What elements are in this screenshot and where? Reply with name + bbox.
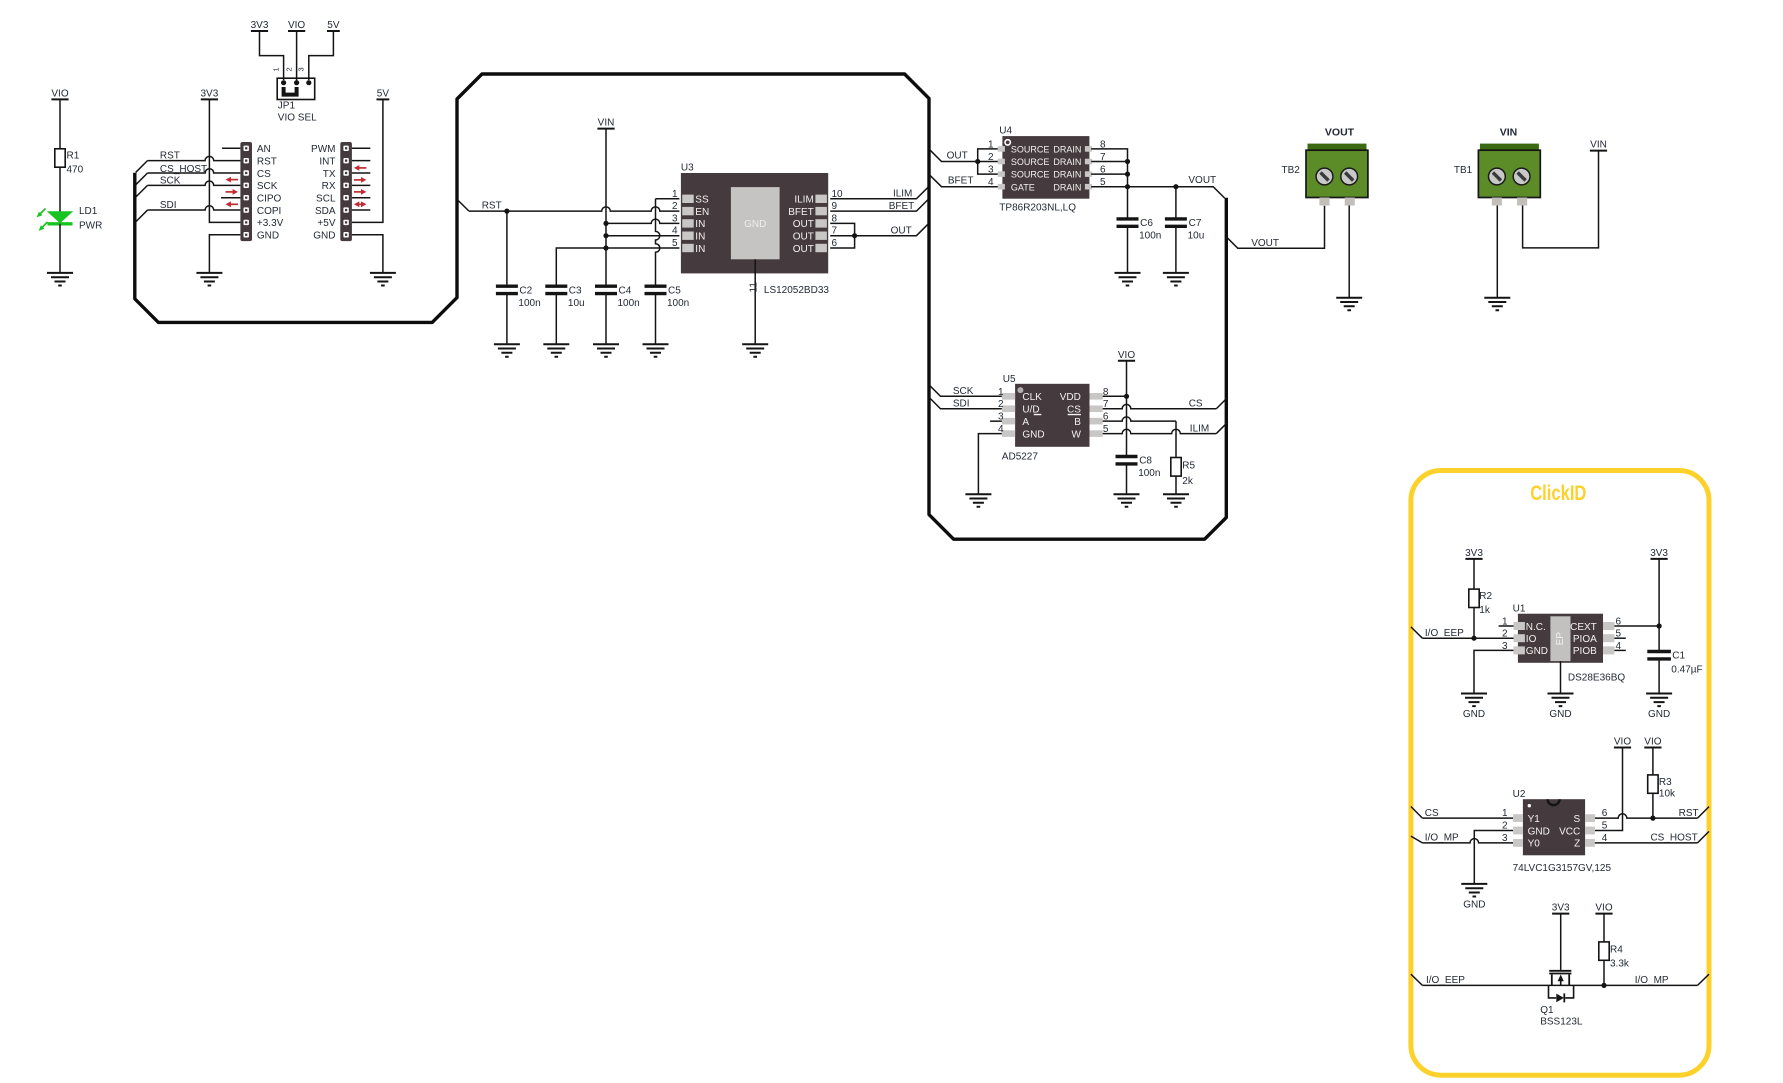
svg-text:470: 470 bbox=[67, 165, 84, 176]
svg-text:VIO: VIO bbox=[1595, 903, 1612, 914]
capacitor C8 bbox=[1116, 457, 1138, 464]
svg-text:2: 2 bbox=[285, 67, 294, 71]
svg-text:GND: GND bbox=[1528, 826, 1550, 837]
svg-text:CS: CS bbox=[257, 169, 271, 180]
resistor R5 bbox=[1171, 458, 1181, 477]
svg-text:100n: 100n bbox=[667, 298, 689, 309]
svg-text:10u: 10u bbox=[568, 298, 585, 309]
ClickID enclosure bbox=[1411, 471, 1709, 1076]
svg-text:1: 1 bbox=[988, 139, 994, 150]
IC U4 TP86R203NL,LQ bbox=[988, 136, 1106, 199]
svg-text:IN: IN bbox=[695, 244, 705, 255]
svg-text:VIO: VIO bbox=[1614, 737, 1631, 748]
svg-text:3.3k: 3.3k bbox=[1610, 959, 1630, 970]
net ILIM (U5 to bus) bbox=[1103, 429, 1217, 433]
junction bbox=[603, 233, 608, 238]
svg-text:DS28E36BQ: DS28E36BQ bbox=[1568, 673, 1625, 684]
svg-text:2: 2 bbox=[1502, 629, 1508, 640]
capacitor C4 bbox=[595, 286, 617, 293]
svg-text:2: 2 bbox=[998, 399, 1004, 410]
svg-text:S: S bbox=[1574, 814, 1581, 825]
svg-text:VIO: VIO bbox=[1118, 350, 1135, 361]
svg-text:CS: CS bbox=[1425, 808, 1439, 819]
junction bbox=[603, 245, 608, 250]
resistor R2 bbox=[1469, 589, 1479, 607]
svg-text:2k: 2k bbox=[1182, 476, 1194, 487]
wire pin6 CEXT bbox=[1614, 625, 1659, 627]
net CS (left) bbox=[1411, 807, 1423, 819]
wire 3V3 to gate bbox=[1560, 914, 1562, 970]
svg-text:4: 4 bbox=[672, 226, 678, 237]
svg-text:C8: C8 bbox=[1139, 455, 1152, 466]
IC U5 AD5227 bbox=[998, 384, 1109, 447]
svg-text:I/O_MP: I/O_MP bbox=[1425, 832, 1459, 843]
svg-text:Z: Z bbox=[1574, 839, 1580, 850]
svg-text:B: B bbox=[1074, 417, 1081, 428]
capacitor C2 bbox=[496, 286, 518, 293]
svg-text:RST: RST bbox=[257, 156, 277, 167]
svg-text:2: 2 bbox=[988, 152, 994, 163]
svg-text:74LVC1G3157GV,125: 74LVC1G3157GV,125 bbox=[1513, 863, 1612, 874]
svg-text:Y1: Y1 bbox=[1528, 814, 1541, 825]
svg-text:3V3: 3V3 bbox=[251, 20, 269, 31]
junction bbox=[1125, 184, 1130, 189]
svg-text:100n: 100n bbox=[1138, 468, 1160, 479]
IC U2 74LVC1G3157 bbox=[1502, 799, 1608, 855]
bus outline (thick) bbox=[135, 74, 1227, 539]
power label VIO (R3) bbox=[1644, 737, 1661, 748]
svg-text:C5: C5 bbox=[668, 286, 681, 297]
wire pin2 GND bbox=[1474, 831, 1513, 884]
wire bbox=[59, 224, 61, 273]
svg-text:GATE: GATE bbox=[1011, 182, 1035, 192]
net OUT (bus to U4) bbox=[930, 150, 999, 162]
svg-text:PIOB: PIOB bbox=[1573, 646, 1597, 657]
svg-text:PWR: PWR bbox=[79, 221, 102, 232]
svg-text:C7: C7 bbox=[1189, 218, 1202, 229]
wire AN stub bbox=[222, 147, 240, 149]
svg-text:C2: C2 bbox=[519, 286, 532, 297]
wire U4 pins 1-3 bracket bbox=[978, 149, 999, 174]
net SCK (bus to U5) bbox=[929, 385, 1002, 397]
net I/O_EEP (bottom) bbox=[1411, 974, 1423, 985]
svg-text:4: 4 bbox=[988, 177, 994, 188]
svg-text:OUT: OUT bbox=[793, 232, 814, 243]
ground bbox=[370, 273, 396, 286]
svg-text:GND: GND bbox=[1463, 899, 1485, 910]
svg-text:BFET: BFET bbox=[889, 201, 915, 212]
net RST (U3 area) flag bbox=[457, 200, 469, 212]
net BFET (U3 to bus) bbox=[830, 200, 928, 212]
wire SDA stub bbox=[352, 209, 370, 211]
svg-text:C4: C4 bbox=[619, 286, 632, 297]
net OUT (U3 to bus) bbox=[855, 224, 928, 236]
svg-text:U5: U5 bbox=[1003, 374, 1016, 385]
net BFET (bus to U4) bbox=[930, 175, 999, 187]
svg-text:3: 3 bbox=[998, 412, 1004, 423]
svg-text:VCC: VCC bbox=[1559, 826, 1580, 837]
svg-text:GND: GND bbox=[1648, 709, 1670, 720]
svg-text:CS_HOST: CS_HOST bbox=[160, 164, 207, 175]
net ILIM (U3 to bus) bbox=[830, 187, 928, 199]
svg-text:CS: CS bbox=[1189, 398, 1203, 409]
svg-text:3V3: 3V3 bbox=[201, 88, 219, 99]
svg-text:CEXT: CEXT bbox=[1570, 622, 1597, 633]
svg-text:VIO: VIO bbox=[1644, 737, 1661, 748]
net VOUT (bus to TB2) bbox=[1226, 206, 1324, 249]
svg-text:3: 3 bbox=[1502, 641, 1508, 652]
power label 3V3 (C1) bbox=[1650, 548, 1668, 559]
ground bbox=[196, 273, 222, 286]
arrow RX bbox=[354, 177, 367, 183]
wire GND pin to ground bbox=[352, 235, 383, 273]
svg-text:IN: IN bbox=[695, 219, 705, 230]
svg-text:W: W bbox=[1071, 429, 1081, 440]
svg-text:OUT: OUT bbox=[947, 150, 968, 161]
svg-text:TB1: TB1 bbox=[1454, 165, 1473, 176]
wire bbox=[309, 31, 334, 80]
capacitor C7 bbox=[1165, 219, 1187, 226]
wire INT stub bbox=[352, 160, 370, 162]
wire pin6 B to R5 bbox=[1103, 417, 1176, 421]
junction bbox=[1601, 983, 1606, 988]
wire TB1 left tab to ground bbox=[1496, 206, 1498, 298]
svg-text:IN: IN bbox=[695, 232, 705, 243]
svg-text:OUT: OUT bbox=[891, 225, 912, 236]
svg-text:VIO: VIO bbox=[51, 88, 68, 99]
svg-text:GND: GND bbox=[313, 231, 335, 242]
power label 3V3 (left header) bbox=[201, 88, 219, 99]
svg-text:4: 4 bbox=[998, 424, 1004, 435]
svg-text:5: 5 bbox=[672, 238, 678, 249]
wire RX stub bbox=[352, 184, 370, 186]
svg-text:A: A bbox=[1022, 417, 1029, 428]
svg-text:I/O_EEP: I/O_EEP bbox=[1425, 628, 1464, 639]
svg-text:COPI: COPI bbox=[257, 206, 281, 217]
svg-text:VOUT: VOUT bbox=[1251, 238, 1279, 249]
svg-text:N.C.: N.C. bbox=[1526, 622, 1546, 633]
svg-text:VIO: VIO bbox=[288, 20, 305, 31]
svg-text:Q1: Q1 bbox=[1540, 1005, 1554, 1016]
svg-text:R4: R4 bbox=[1610, 945, 1623, 956]
arrow TX bbox=[354, 165, 367, 171]
wire PWM stub bbox=[352, 147, 370, 149]
transistor Q1 BSS123L bbox=[1549, 971, 1574, 1003]
arrow SCK in bbox=[226, 177, 239, 183]
svg-text:VIN: VIN bbox=[598, 118, 615, 129]
svg-text:SCL: SCL bbox=[316, 194, 336, 205]
wire bbox=[296, 31, 298, 83]
svg-text:I/O_MP: I/O_MP bbox=[1635, 975, 1669, 986]
power label 3V3 (JP1) bbox=[251, 20, 269, 31]
wire R3 to RST net bbox=[1652, 793, 1654, 818]
svg-text:BFET: BFET bbox=[948, 176, 974, 187]
svg-text:I/O_EEP: I/O_EEP bbox=[1426, 975, 1465, 986]
svg-text:LS12052BD33: LS12052BD33 bbox=[764, 285, 829, 296]
junction bbox=[504, 209, 509, 214]
LED LD1 PWR bbox=[37, 209, 74, 231]
terminal block TB2 bbox=[1306, 144, 1368, 206]
svg-text:SCK: SCK bbox=[160, 175, 181, 186]
power label 5V (right header) bbox=[377, 88, 390, 99]
IC U1 DS28E36BQ bbox=[1502, 614, 1622, 663]
wire VIO to R3 bbox=[1652, 748, 1654, 775]
svg-text:100n: 100n bbox=[1139, 231, 1161, 242]
svg-text:INT: INT bbox=[319, 156, 335, 167]
wire VIN down to C4 bbox=[605, 129, 607, 287]
wire IN pin5 + C3 riser bbox=[556, 248, 679, 286]
svg-text:EP: EP bbox=[1555, 632, 1566, 646]
wire CIPO stub bbox=[221, 197, 240, 199]
ground bbox=[742, 344, 768, 357]
svg-text:CIPO: CIPO bbox=[257, 194, 282, 205]
svg-text:3: 3 bbox=[1502, 833, 1508, 844]
svg-text:VIO SEL: VIO SEL bbox=[278, 112, 317, 123]
svg-text:PWM: PWM bbox=[311, 144, 335, 155]
wire TB2 right tab to ground bbox=[1348, 206, 1350, 298]
svg-text:RX: RX bbox=[322, 181, 336, 192]
svg-text:VOUT: VOUT bbox=[1188, 175, 1216, 186]
svg-text:R1: R1 bbox=[67, 151, 80, 162]
capacitor C1 bbox=[1647, 652, 1671, 659]
power label VIN (TB1) bbox=[1590, 140, 1607, 151]
wire 3V3 to C1 bbox=[1658, 559, 1660, 652]
jumper JP1 VIO SEL bbox=[272, 67, 315, 99]
svg-text:U4: U4 bbox=[999, 126, 1012, 137]
svg-text:EN: EN bbox=[695, 207, 709, 218]
svg-text:3V3: 3V3 bbox=[1552, 903, 1570, 914]
wire pin3 GND bbox=[1474, 650, 1514, 693]
svg-text:5: 5 bbox=[1602, 821, 1608, 832]
svg-text:3: 3 bbox=[988, 165, 994, 176]
svg-text:GND: GND bbox=[744, 219, 766, 230]
svg-text:BSS123L: BSS123L bbox=[1540, 1017, 1583, 1028]
wire pin4 stub bbox=[1614, 649, 1625, 651]
svg-text:IO: IO bbox=[1526, 634, 1537, 645]
ground bbox=[965, 494, 991, 507]
svg-text:ILIM: ILIM bbox=[1190, 423, 1209, 434]
wire GND pin to ground bbox=[209, 235, 240, 273]
svg-text:100n: 100n bbox=[518, 298, 540, 309]
wire SCL stub bbox=[352, 197, 370, 199]
svg-text:10u: 10u bbox=[1188, 231, 1205, 242]
power label 3V3 (Q1) bbox=[1552, 903, 1570, 914]
ground bbox=[1646, 694, 1672, 721]
arrow SDA bbox=[354, 201, 367, 207]
wire 5V to +5V pin bbox=[352, 99, 383, 222]
wire bbox=[59, 167, 61, 211]
svg-text:RST: RST bbox=[160, 151, 180, 162]
svg-text:SDI: SDI bbox=[160, 200, 177, 211]
svg-text:SOURCE: SOURCE bbox=[1011, 157, 1050, 167]
junction bbox=[1471, 636, 1476, 641]
svg-text:100n: 100n bbox=[618, 298, 640, 309]
svg-text:GND: GND bbox=[1022, 429, 1044, 440]
capacitor C3 bbox=[545, 286, 567, 293]
wire C7 riser bbox=[1175, 187, 1177, 219]
svg-text:DRAIN: DRAIN bbox=[1053, 145, 1081, 155]
resistor R1 bbox=[55, 149, 65, 167]
svg-text:SDI: SDI bbox=[953, 398, 970, 409]
svg-text:SOURCE: SOURCE bbox=[1011, 145, 1050, 155]
svg-text:1: 1 bbox=[1502, 617, 1508, 628]
svg-text:R3: R3 bbox=[1659, 777, 1672, 788]
arrow CIPO out bbox=[226, 189, 239, 195]
svg-text:ILIM: ILIM bbox=[794, 195, 813, 206]
power label VIN bbox=[597, 118, 614, 129]
svg-text:3: 3 bbox=[672, 213, 678, 224]
ground bbox=[1484, 298, 1510, 311]
svg-text:SCK: SCK bbox=[953, 386, 974, 397]
wire IN pin3 bbox=[606, 219, 679, 223]
svg-text:C1: C1 bbox=[1672, 651, 1685, 662]
ground bbox=[1336, 298, 1362, 311]
ground bbox=[1461, 884, 1487, 911]
svg-text:DRAIN: DRAIN bbox=[1053, 182, 1081, 192]
junction bbox=[1125, 159, 1130, 164]
svg-text:ClickID: ClickID bbox=[1530, 482, 1586, 505]
svg-text:CS: CS bbox=[1067, 404, 1081, 415]
svg-text:1k: 1k bbox=[1479, 605, 1491, 616]
svg-text:VIN: VIN bbox=[1500, 126, 1518, 138]
svg-text:U3: U3 bbox=[681, 163, 694, 174]
svg-text:+5V: +5V bbox=[317, 218, 335, 229]
net CS_HOST bbox=[136, 173, 148, 185]
svg-text:C3: C3 bbox=[569, 286, 582, 297]
svg-text:1: 1 bbox=[998, 387, 1004, 398]
pin 11 GND tab wire bbox=[754, 259, 756, 344]
wire VIO to VCC pin5 bbox=[1595, 748, 1623, 831]
wire bbox=[59, 99, 61, 148]
arrow COPI in bbox=[226, 201, 239, 207]
wire R5 to ground bbox=[1175, 476, 1177, 494]
svg-text:U/D: U/D bbox=[1022, 404, 1039, 415]
net CS (U5 to bus) bbox=[1103, 404, 1217, 408]
junction bbox=[1124, 394, 1129, 399]
svg-text:OUT: OUT bbox=[793, 244, 814, 255]
svg-text:C6: C6 bbox=[1140, 218, 1153, 229]
svg-text:SOURCE: SOURCE bbox=[1011, 170, 1050, 180]
svg-text:RST: RST bbox=[482, 201, 502, 212]
svg-text:RST: RST bbox=[1679, 808, 1699, 819]
wire pin1 stub bbox=[1499, 625, 1514, 627]
svg-text:11: 11 bbox=[749, 282, 760, 293]
svg-text:1: 1 bbox=[672, 189, 678, 200]
capacitor C6 bbox=[1117, 219, 1139, 226]
svg-text:DRAIN: DRAIN bbox=[1053, 157, 1081, 167]
wire pin5 stub bbox=[1614, 637, 1625, 639]
svg-text:1: 1 bbox=[1502, 808, 1508, 819]
net SDI (bus to U5) bbox=[929, 397, 1002, 409]
svg-text:JP1: JP1 bbox=[278, 101, 296, 112]
svg-text:5V: 5V bbox=[327, 20, 340, 31]
svg-text:GND: GND bbox=[1526, 646, 1548, 657]
wire VIO to VDD and C8 bbox=[1126, 361, 1128, 457]
power label VIO (U5) bbox=[1118, 350, 1135, 361]
svg-text:+3.3V: +3.3V bbox=[257, 218, 284, 229]
svg-text:TB2: TB2 bbox=[1282, 165, 1301, 176]
power label 5V (JP1) bbox=[327, 20, 340, 31]
svg-text:5V: 5V bbox=[377, 88, 390, 99]
svg-text:R5: R5 bbox=[1182, 461, 1195, 472]
net RST bbox=[136, 161, 148, 173]
wire TX stub bbox=[352, 172, 370, 174]
wire pin4 GND bbox=[978, 434, 1002, 495]
svg-text:CLK: CLK bbox=[1022, 392, 1042, 403]
wire SS vertical to C5 bbox=[656, 199, 660, 286]
net SCK bbox=[136, 185, 148, 197]
svg-text:Y0: Y0 bbox=[1528, 839, 1541, 850]
svg-text:U2: U2 bbox=[1513, 789, 1526, 800]
svg-text:GND: GND bbox=[257, 231, 279, 242]
svg-text:TP86R203NL,LQ: TP86R203NL,LQ bbox=[999, 202, 1076, 213]
wire VIN to TB1 right tab bbox=[1523, 151, 1599, 248]
header P1 left bbox=[240, 142, 252, 241]
svg-text:2: 2 bbox=[1502, 821, 1508, 832]
net RST (right) bbox=[1595, 814, 1698, 818]
svg-text:R2: R2 bbox=[1479, 591, 1492, 602]
svg-text:VIN: VIN bbox=[1590, 140, 1607, 151]
svg-text:TX: TX bbox=[323, 169, 336, 180]
header P2 right bbox=[340, 142, 352, 241]
svg-text:GND: GND bbox=[1463, 709, 1485, 720]
power label 3V3 (R2) bbox=[1465, 548, 1483, 559]
svg-text:3V3: 3V3 bbox=[1465, 548, 1483, 559]
svg-text:GND: GND bbox=[1549, 709, 1571, 720]
wire C1 to ground bbox=[1658, 659, 1660, 694]
svg-text:SDA: SDA bbox=[315, 206, 336, 217]
svg-text:PIOA: PIOA bbox=[1573, 634, 1597, 645]
svg-text:10k: 10k bbox=[1659, 789, 1676, 800]
svg-text:SS: SS bbox=[695, 195, 709, 206]
power label VIO (JP1) bbox=[288, 20, 305, 31]
svg-text:3: 3 bbox=[297, 67, 306, 71]
resistor R3 bbox=[1648, 775, 1658, 793]
junction bbox=[975, 159, 980, 164]
net CS_HOST (right) bbox=[1595, 842, 1698, 844]
wire C2 riser bbox=[506, 211, 508, 286]
wire U4 drain pins to C6 vertical bbox=[1091, 149, 1127, 219]
net I/O_MP (left) bbox=[1411, 836, 1423, 843]
wire VIO to R4 bbox=[1603, 914, 1605, 942]
svg-text:AD5227: AD5227 bbox=[1002, 451, 1039, 462]
wire EP to ground bbox=[1560, 661, 1562, 693]
svg-text:OUT: OUT bbox=[793, 219, 814, 230]
wire RST to EN bbox=[469, 207, 679, 211]
ground bbox=[47, 273, 73, 286]
junction bbox=[852, 233, 857, 238]
terminal block TB1 bbox=[1478, 144, 1540, 206]
svg-text:SCK: SCK bbox=[257, 181, 278, 192]
svg-text:LD1: LD1 bbox=[79, 206, 98, 217]
ground bbox=[1461, 694, 1487, 721]
ground bbox=[1548, 694, 1574, 721]
svg-text:ILIM: ILIM bbox=[893, 189, 912, 200]
wire OUT bracket pins 6,7,8 bbox=[830, 223, 854, 248]
wire IN pin4 bbox=[606, 235, 679, 237]
net I/O_EEP (top) bbox=[1411, 627, 1423, 638]
junction bbox=[1650, 816, 1655, 821]
wire 3V3 to +3.3V pin bbox=[209, 99, 240, 222]
wire bbox=[260, 31, 284, 80]
svg-text:DRAIN: DRAIN bbox=[1053, 170, 1081, 180]
IC U3 LS12052BD33 bbox=[672, 173, 843, 273]
wire VDD pin8 bbox=[1103, 395, 1127, 397]
arrow SCL bbox=[354, 189, 367, 195]
svg-text:CS_HOST: CS_HOST bbox=[1650, 832, 1697, 843]
wire pin3 stub bbox=[990, 420, 1002, 422]
svg-text:VDD: VDD bbox=[1060, 392, 1081, 403]
